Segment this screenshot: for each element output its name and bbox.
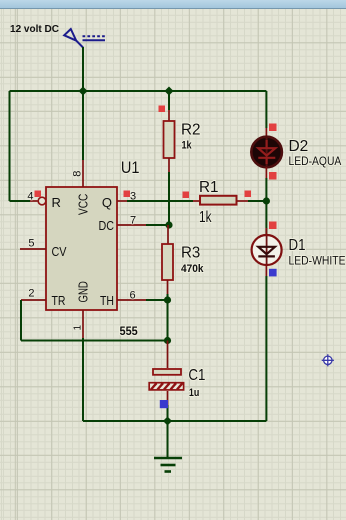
svg-text:1u: 1u [189, 387, 199, 399]
junction at power/top rail [79, 87, 88, 96]
pin 5 CV stub [20, 248, 46, 250]
svg-text:555: 555 [120, 326, 139, 338]
junction at pin7 node [165, 221, 172, 228]
power terminal V1 symbol [64, 29, 105, 48]
pin 8 VCC stub [82, 160, 84, 187]
svg-text:Q: Q [102, 195, 112, 210]
svg-text:LED-AQUA: LED-AQUA [289, 154, 342, 168]
capacitor C1 [149, 341, 183, 406]
svg-text:TH: TH [100, 293, 114, 308]
junction at TH node [164, 296, 171, 303]
origin marker [322, 354, 334, 366]
selection mark above D2 [269, 124, 277, 132]
wire R3 bottom to TH node [167, 294, 169, 300]
svg-text:D1: D1 [289, 237, 306, 254]
svg-text:8: 8 [72, 171, 84, 177]
svg-text:6: 6 [130, 290, 136, 302]
selection mark near pin 3 [124, 191, 131, 198]
wire pin1 down [82, 338, 84, 421]
svg-text:1k: 1k [199, 209, 212, 226]
svg-text:5: 5 [28, 238, 34, 250]
junction at TR node [164, 337, 171, 344]
pin 3 Q stub [117, 200, 127, 202]
resistor R2 [164, 91, 175, 172]
selection mark right of R1 [245, 191, 252, 198]
pin 1 GND stub [82, 310, 84, 338]
wire left rail [9, 91, 11, 201]
pin 8 wire from rail [82, 91, 84, 160]
selection mark near R2 top [159, 106, 166, 113]
wire R1 to LED node [248, 200, 266, 202]
wire C1 bottom to bottom rail [167, 405, 169, 421]
svg-text:DC: DC [99, 218, 115, 233]
svg-text:1k: 1k [182, 140, 193, 152]
svg-text:R3: R3 [181, 244, 200, 261]
svg-text:GND: GND [76, 281, 91, 302]
wire pin7 to node [146, 224, 169, 226]
IC U1 555 timer body [46, 187, 117, 310]
svg-text:1: 1 [73, 325, 84, 331]
svg-text:D2: D2 [289, 138, 309, 155]
wire D2 to node [265, 178, 267, 201]
selection mark near pin 4 [35, 191, 42, 198]
svg-text:R1: R1 [199, 179, 219, 196]
svg-text:U1: U1 [121, 159, 140, 177]
wire TR down [20, 300, 22, 341]
ground symbol [154, 421, 182, 472]
pin 6 TH stub [117, 299, 146, 301]
resistor R3 [162, 225, 173, 294]
selection mark left of R1 [183, 192, 190, 199]
wire TR to TH node [21, 340, 168, 342]
svg-text:470k: 470k [181, 263, 204, 275]
svg-text:VCC: VCC [76, 194, 91, 215]
wire D1 down to bottom rail [265, 276, 267, 421]
svg-text:C1: C1 [188, 367, 205, 384]
junction at R2/top rail [165, 87, 174, 96]
LED D2 [251, 128, 282, 178]
wire bottom rail [83, 420, 266, 422]
wire node to D1 [265, 201, 267, 235]
selection mark above D1 [269, 222, 277, 230]
wire pin3 to R1 [127, 200, 193, 202]
svg-text:12 volt DC: 12 volt DC [10, 23, 59, 35]
svg-text:R: R [52, 195, 61, 210]
pin 4 R stub with bubble [30, 197, 46, 205]
wire TH node down to TR node [167, 300, 169, 341]
wire pin6 to node [146, 299, 168, 301]
resistor R1 [193, 196, 248, 205]
svg-text:4: 4 [27, 191, 33, 203]
svg-text:LED-WHITE: LED-WHITE [289, 253, 346, 267]
selection mark below D2 [269, 172, 277, 180]
wire right rail down to D2 [265, 91, 267, 128]
svg-text:2: 2 [28, 288, 34, 300]
junction at ground [163, 417, 172, 426]
wire left rail to pin 4 [10, 200, 31, 202]
blue mark below C1 [160, 400, 168, 408]
junction LED node [263, 197, 270, 204]
wire R2 bottom to pin7 node [168, 172, 170, 225]
wire from power terminal down to top rail [82, 47, 84, 91]
pin 7 DC stub [117, 224, 146, 226]
svg-text:7: 7 [130, 215, 136, 227]
blue mark below D1 [269, 269, 277, 277]
pin 2 TR stub [21, 299, 46, 301]
svg-text:CV: CV [52, 244, 67, 259]
LED D1 [252, 228, 282, 276]
svg-text:R2: R2 [181, 121, 201, 138]
wire top rail [10, 90, 267, 92]
svg-text:TR: TR [52, 293, 66, 308]
